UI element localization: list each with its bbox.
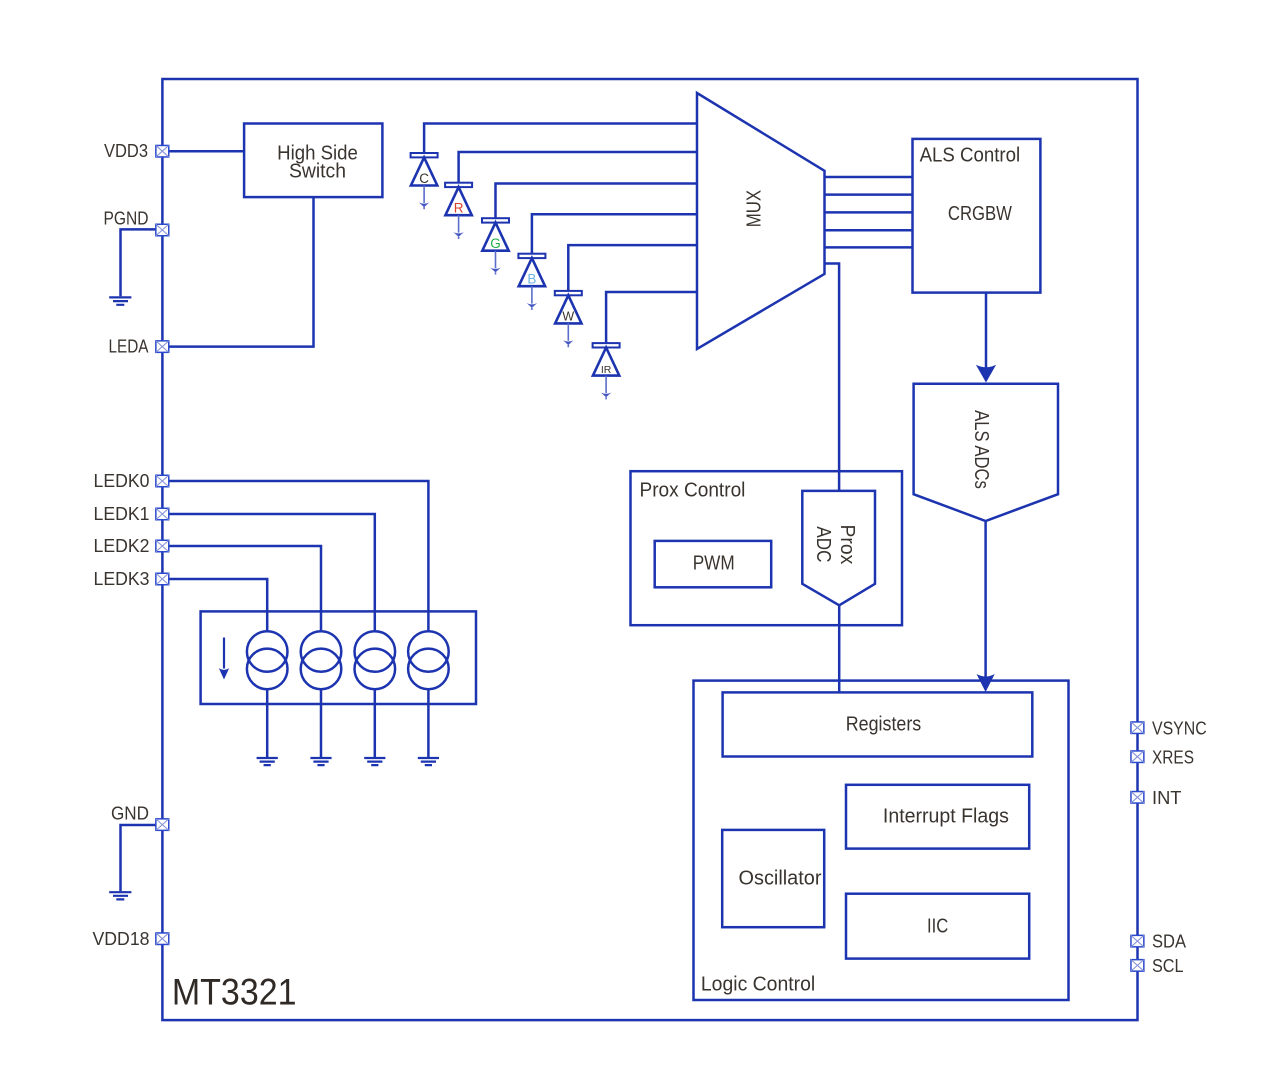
wire diode IR to MUX [606,292,697,343]
svg-text:G: G [490,236,501,251]
wire MUX output line 1 [825,176,913,179]
svg-text:VDD18: VDD18 [93,929,150,949]
pin XRES [1131,751,1144,763]
block ALS ADCs pentagon [914,384,1058,521]
wire LEDK1 to current source 3 [164,514,375,632]
block PWM [655,541,772,587]
chip outer border [162,79,1137,1020]
pin SDA [1131,935,1144,947]
svg-text:R: R [454,201,464,216]
current source I2 [301,631,342,672]
wire MUX tap to Prox ADC [825,264,840,491]
svg-text:INT: INT [1152,788,1182,808]
ground symbol GND [109,892,131,899]
wire PGND pin to ground [121,229,163,296]
pin LEDA [156,341,169,353]
wire I3 to ground [374,689,377,757]
current source I4 [408,631,449,672]
svg-text:Registers: Registers [846,713,922,735]
svg-text:IR: IR [601,364,612,376]
wire LEDK2 to current source 2 [164,546,321,632]
wire MUX output line 3 [825,211,913,214]
ground symbol PGND [109,297,131,304]
svg-text:W: W [562,310,574,324]
pin LEDK0 [156,475,169,487]
block LED current sources [201,611,476,704]
arrowhead ALS Control to ALS ADCs [976,365,996,383]
block High Side Switch [244,124,382,198]
pin LEDK1 [156,508,169,520]
svg-text:Prox: Prox [836,525,858,565]
svg-text:VSYNC: VSYNC [1152,719,1207,739]
block Logic Control [694,681,1069,1000]
current source I1 [247,631,288,672]
wire I1 to ground [266,689,269,757]
ground symbol below I1 [257,758,278,765]
svg-text:C: C [419,171,429,186]
block ALS Control [913,139,1041,293]
block Registers [723,692,1033,756]
svg-text:SCL: SCL [1152,956,1184,976]
svg-text:Interrupt Flags: Interrupt Flags [883,806,1009,828]
svg-text:LEDK1: LEDK1 [94,504,150,524]
ground symbol below I4 [418,758,439,765]
block MUX trapezoid [697,93,825,349]
svg-text:LEDK3: LEDK3 [94,569,150,589]
pin GND [156,819,169,831]
svg-text:MT3321: MT3321 [172,971,297,1012]
svg-text:CRGBW: CRGBW [948,203,1012,225]
current direction arrow [223,638,225,669]
wire MUX output line 4 [825,229,913,232]
svg-text:ALS ADCs: ALS ADCs [970,410,992,489]
photodiode R [445,152,697,239]
wire LEDK0 to current source 4 [164,481,428,632]
block Prox ADC pentagon [802,491,875,605]
wire diode W to MUX [568,245,697,291]
wire LEDA pin to High Side Switch bottom [164,197,314,347]
ground symbol below I2 [310,758,331,765]
block Oscillator [722,830,824,927]
svg-text:PGND: PGND [104,209,149,229]
pin VDD18 [156,933,169,945]
block Interrupt Flags [846,785,1029,849]
wire I2 to ground [320,689,323,757]
wire Prox ADC to Registers [838,605,841,692]
pin LEDK3 [156,573,169,585]
svg-text:LEDA: LEDA [109,336,149,356]
photodiode W [555,245,697,347]
photodiode B [518,214,697,310]
svg-text:LEDK2: LEDK2 [94,536,150,556]
pin VSYNC [1131,722,1144,734]
pin PGND [156,224,169,236]
wire I4 to ground [427,689,430,757]
svg-text:Switch: Switch [289,160,346,182]
wire ALS ADCs to Registers arrow stem [984,521,987,678]
wire MUX output line 2 [825,193,913,196]
svg-text:VDD3: VDD3 [104,141,148,161]
block IIC [846,894,1029,959]
current source I3 [355,631,396,672]
photodiode G [482,184,697,275]
pin VDD3 [156,145,169,157]
svg-text:XRES: XRES [1152,747,1194,767]
svg-text:IIC: IIC [927,916,948,938]
wire LEDK3 to current source 1 [164,579,267,632]
photodiode C [411,124,697,210]
svg-text:Logic Control: Logic Control [701,973,815,995]
svg-text:LEDK0: LEDK0 [94,471,150,491]
svg-text:B: B [527,272,536,287]
wire diode B to MUX [532,214,697,253]
pin INT [1131,792,1144,804]
pin LEDK2 [156,540,169,552]
svg-text:Prox Control: Prox Control [640,479,746,501]
wire diode R to MUX [459,152,697,183]
pin SCL [1131,960,1144,972]
wire VDD3 pin to High Side Switch [164,150,244,153]
wire diode G to MUX [496,184,698,219]
block Prox Control [631,471,903,625]
photodiode IR [593,292,697,399]
svg-text:SDA: SDA [1152,932,1186,952]
wire diode C to MUX [424,124,697,154]
svg-text:ALS Control: ALS Control [920,144,1021,166]
svg-text:PWM: PWM [693,552,735,574]
svg-text:Oscillator: Oscillator [739,868,822,890]
wire GND pin to ground [121,825,163,891]
wire ALS Control to ALS ADCs arrow stem [985,293,988,368]
svg-text:ADC: ADC [812,526,834,562]
svg-text:GND: GND [111,804,149,824]
svg-text:MUX: MUX [743,190,765,227]
ground symbol below I3 [364,758,385,765]
wire MUX output line 5 [825,246,913,249]
arrowhead ALS ADCs to Registers [977,674,995,692]
